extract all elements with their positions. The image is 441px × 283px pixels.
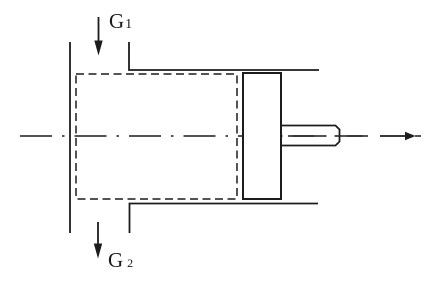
arrow output force right bbox=[380, 135, 407, 137]
wire bottom cylinder wall bbox=[130, 204, 319, 234]
arrow force G2 down bbox=[97, 222, 99, 246]
label G2 bbox=[108, 250, 133, 274]
piston rectangle bbox=[243, 73, 281, 199]
arrow force G1 down bbox=[98, 17, 100, 43]
cylinder bore dashed rectangle bbox=[76, 74, 237, 199]
label G1 bbox=[109, 11, 132, 35]
wire top cylinder wall bbox=[129, 42, 319, 70]
wire left wall vertical line bbox=[69, 42, 71, 233]
wire centerline through rod bbox=[288, 135, 367, 137]
piston rod with chamfered end bbox=[281, 126, 340, 146]
node centerline dash-dot axis bbox=[20, 135, 368, 137]
